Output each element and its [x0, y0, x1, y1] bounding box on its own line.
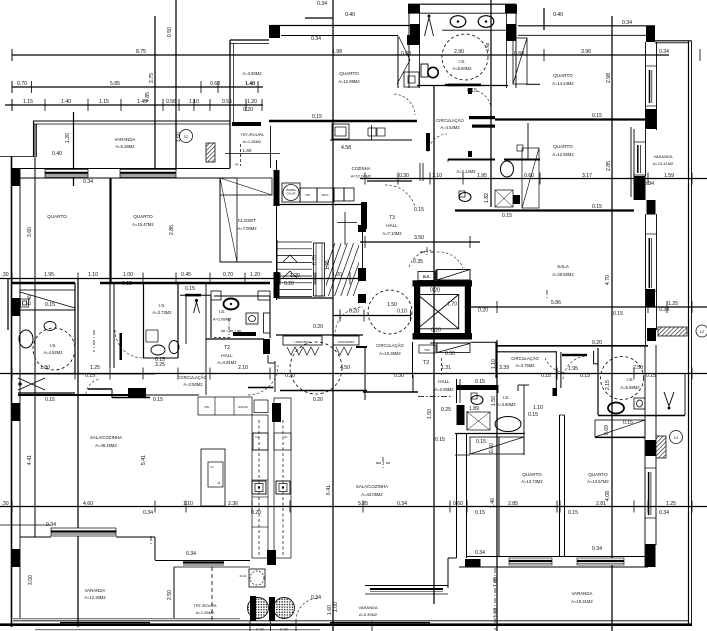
svg-text:0.25: 0.25	[441, 407, 451, 413]
svg-text:A=12.50M2: A=12.50M2	[552, 152, 574, 157]
svg-text:8.75: 8.75	[136, 49, 146, 55]
svg-text:0.20: 0.20	[243, 107, 253, 113]
svg-text:QUARTO: QUARTO	[133, 214, 153, 219]
svg-text:A=19.31M2: A=19.31M2	[571, 599, 593, 604]
svg-text:0.34: 0.34	[659, 49, 669, 55]
svg-text:0.30: 0.30	[394, 373, 404, 379]
svg-text:4.58: 4.58	[341, 145, 351, 151]
svg-text:3.17: 3.17	[582, 173, 592, 179]
svg-text:12: 12	[674, 435, 679, 440]
svg-text:0.60: 0.60	[524, 173, 534, 179]
svg-text:0.34: 0.34	[397, 501, 407, 507]
svg-text:2.50: 2.50	[633, 365, 643, 371]
svg-text:A=7.00M2: A=7.00M2	[237, 226, 257, 231]
svg-text:2.50: 2.50	[167, 590, 173, 600]
svg-text:4.70: 4.70	[605, 275, 611, 285]
svg-text:A=1.35M2: A=1.35M2	[196, 610, 215, 615]
svg-text:1.80: 1.80	[40, 365, 50, 371]
svg-text:3.60: 3.60	[27, 227, 33, 237]
svg-text:5.41: 5.41	[141, 455, 147, 465]
svg-text:I.S.: I.S.	[459, 59, 466, 64]
svg-text:0.20: 0.20	[313, 324, 323, 330]
svg-text:1.95: 1.95	[477, 173, 487, 179]
svg-text:0.15: 0.15	[580, 373, 590, 379]
svg-text:0.45: 0.45	[181, 272, 191, 278]
svg-text:0.15: 0.15	[646, 373, 656, 379]
svg-text:SALA/COZINHA: SALA/COZINHA	[356, 484, 388, 489]
svg-text:A=13.73M2: A=13.73M2	[521, 479, 543, 484]
svg-text:.30: .30	[1, 272, 8, 278]
svg-text:2.85: 2.85	[508, 501, 518, 507]
svg-text:CIRCULAÇÃO: CIRCULAÇÃO	[511, 356, 539, 361]
svg-text:1.35: 1.35	[325, 260, 331, 270]
svg-text:A=3.91M2: A=3.91M2	[217, 360, 237, 365]
svg-text:QUARTO: QUARTO	[522, 472, 542, 477]
svg-text:QUARTO: QUARTO	[553, 144, 573, 149]
svg-text:1.10: 1.10	[88, 272, 98, 278]
svg-text:T3: T3	[389, 215, 395, 221]
svg-text:UMIDORES: UMIDORES	[294, 340, 310, 344]
svg-text:A=43.05M2: A=43.05M2	[361, 492, 383, 497]
svg-text:0.34: 0.34	[659, 307, 669, 313]
svg-text:2.75: 2.75	[149, 73, 155, 83]
svg-text:1.00: 1.00	[333, 602, 339, 612]
svg-text:A=3.50M2: A=3.50M2	[183, 382, 203, 387]
svg-text:ARCA: ARCA	[321, 193, 328, 197]
svg-text:0.60: 0.60	[401, 51, 411, 57]
svg-text:0.34: 0.34	[311, 595, 321, 601]
svg-text:1.15: 1.15	[99, 99, 109, 105]
svg-text:0.70: 0.70	[223, 272, 233, 278]
svg-text:I.S.: I.S.	[50, 343, 57, 348]
svg-text:0.20: 0.20	[592, 340, 602, 346]
svg-text:BOMBA: BOMBA	[286, 188, 296, 192]
svg-text:1.20: 1.20	[290, 273, 300, 279]
svg-text:1.98: 1.98	[332, 49, 342, 55]
svg-text:0.20: 0.20	[430, 288, 440, 294]
svg-text:SALA: SALA	[557, 264, 570, 269]
svg-text:1.60: 1.60	[243, 148, 252, 153]
svg-text:0.35: 0.35	[413, 259, 423, 265]
svg-text:0.15: 0.15	[414, 207, 424, 213]
svg-text:0.20: 0.20	[280, 628, 287, 631]
svg-text:1.10: 1.10	[189, 99, 199, 105]
svg-text:I.S.: I.S.	[627, 377, 634, 382]
svg-text:I.S.: I.S.	[159, 303, 166, 308]
svg-text:1.50: 1.50	[387, 302, 397, 308]
svg-text:FU: FU	[255, 436, 259, 439]
svg-text:QUARTO: QUARTO	[588, 472, 608, 477]
svg-text:0.34: 0.34	[592, 546, 602, 552]
svg-text:A=3.60M2: A=3.60M2	[242, 71, 262, 76]
svg-text:0.40: 0.40	[553, 12, 563, 18]
svg-text:0.55: 0.55	[222, 99, 232, 105]
svg-text:0.34: 0.34	[622, 20, 632, 26]
svg-text:MF: MF	[235, 163, 239, 167]
svg-text:0.20: 0.20	[285, 373, 295, 379]
svg-text:6.41: 6.41	[326, 485, 332, 495]
svg-text:A=3.12M2: A=3.12M2	[456, 169, 476, 174]
svg-text:0.34: 0.34	[475, 550, 485, 556]
svg-text:MAQ-PR: MAQ-PR	[238, 406, 248, 409]
svg-text:3.96: 3.96	[581, 49, 591, 55]
svg-text:SALA/COZINHA: SALA/COZINHA	[90, 435, 122, 440]
svg-text:TRT./ROUPA: TRT./ROUPA	[240, 132, 264, 137]
svg-text:A=3.75M2: A=3.75M2	[515, 363, 535, 368]
svg-text:HALL: HALL	[438, 379, 450, 384]
svg-text:0.15: 0.15	[541, 373, 551, 379]
svg-text:0.15: 0.15	[467, 88, 477, 94]
svg-text:HALL: HALL	[386, 223, 398, 228]
svg-text:0.15: 0.15	[85, 373, 95, 379]
svg-text:0.34: 0.34	[311, 36, 321, 42]
svg-text:CIRCULAÇÃO: CIRCULAÇÃO	[376, 343, 404, 348]
svg-text:0.70: 0.70	[17, 81, 27, 87]
svg-text:ELE.: ELE.	[423, 275, 430, 279]
svg-text:A=10.35M2: A=10.35M2	[379, 351, 401, 356]
svg-text:0.15: 0.15	[592, 113, 602, 119]
svg-text:0.15: 0.15	[592, 204, 602, 210]
svg-text:1.25: 1.25	[668, 301, 678, 307]
svg-text:1.70: 1.70	[447, 302, 457, 308]
svg-text:CONTADORES: CONTADORES	[338, 341, 355, 344]
svg-text:2.10: 2.10	[238, 365, 248, 371]
svg-text:0.56: 0.56	[166, 99, 176, 105]
svg-text:1.25: 1.25	[666, 501, 676, 507]
svg-text:2.98: 2.98	[606, 73, 612, 83]
svg-text:1.10: 1.10	[533, 405, 543, 411]
svg-text:4.85: 4.85	[145, 92, 151, 102]
svg-text:0.15: 0.15	[502, 213, 512, 219]
svg-text:0.20: 0.20	[349, 309, 359, 315]
svg-text:A=2.05M2: A=2.05M2	[434, 387, 454, 392]
svg-text:0.15: 0.15	[153, 397, 163, 403]
svg-text:0.60: 0.60	[453, 501, 463, 507]
svg-text:1.10: 1.10	[491, 359, 497, 369]
svg-text:A=48.15M2: A=48.15M2	[95, 443, 117, 448]
svg-text:0.34: 0.34	[46, 522, 56, 528]
svg-text:0.40: 0.40	[52, 151, 62, 157]
svg-text:0.15: 0.15	[475, 510, 485, 516]
svg-text:4.60: 4.60	[83, 501, 93, 507]
svg-text:0.15: 0.15	[312, 114, 322, 120]
svg-text:2.15: 2.15	[605, 380, 611, 390]
svg-text:0.15: 0.15	[623, 420, 633, 426]
svg-text:T2: T2	[224, 345, 230, 351]
svg-text:TRC: TRC	[424, 348, 430, 352]
svg-text:VARANDA: VARANDA	[653, 154, 672, 159]
svg-text:I.S.: I.S.	[219, 309, 226, 314]
svg-text:0.40: 0.40	[345, 12, 355, 18]
svg-text:QUARTO: QUARTO	[47, 214, 67, 219]
svg-text:1.40: 1.40	[61, 99, 71, 105]
svg-text:1.25: 1.25	[90, 365, 100, 371]
svg-text:A=4.54M2: A=4.54M2	[440, 125, 460, 130]
svg-text:0.34: 0.34	[83, 179, 93, 185]
svg-text:0.15: 0.15	[475, 379, 485, 385]
svg-text:3.50: 3.50	[414, 235, 424, 241]
svg-text:0.34: 0.34	[659, 510, 669, 516]
svg-text:A=3.73M2: A=3.73M2	[152, 310, 172, 315]
svg-text:0.34: 0.34	[317, 1, 327, 7]
svg-text:1.63: 1.63	[493, 608, 499, 618]
svg-text:0.20: 0.20	[256, 628, 263, 631]
svg-text:1.40: 1.40	[245, 81, 255, 87]
svg-text:CIRCULAÇÃO: CIRCULAÇÃO	[179, 375, 207, 380]
svg-text:A=12.30M2: A=12.30M2	[84, 595, 106, 600]
svg-text:3.00: 3.00	[28, 575, 34, 585]
svg-text:5.85: 5.85	[110, 81, 120, 87]
svg-text:1.60: 1.60	[176, 132, 182, 142]
svg-text:0.69: 0.69	[604, 425, 610, 435]
svg-text:1.20: 1.20	[247, 99, 257, 105]
svg-text:0.15: 0.15	[476, 439, 486, 445]
svg-text:0.10: 0.10	[397, 309, 407, 315]
svg-text:VARANDA: VARANDA	[358, 605, 377, 610]
svg-text:5.86: 5.86	[551, 300, 561, 306]
svg-text:VARANDA: VARANDA	[115, 137, 136, 142]
svg-text:0.30: 0.30	[399, 173, 409, 179]
svg-text:2.90: 2.90	[454, 49, 464, 55]
svg-text:I.S.: I.S.	[503, 395, 510, 400]
svg-text:0.60: 0.60	[489, 443, 495, 453]
svg-text:A=5.88M2: A=5.88M2	[620, 385, 640, 390]
svg-text:12: 12	[184, 134, 189, 139]
svg-text:PRL: PRL	[204, 405, 210, 409]
svg-text:A=4.92M2: A=4.92M2	[43, 350, 63, 355]
svg-text:2.86: 2.86	[169, 225, 175, 235]
svg-text:FU: FU	[210, 466, 214, 469]
svg-text:0.46: 0.46	[27, 295, 33, 305]
svg-text:4.41: 4.41	[27, 455, 33, 465]
svg-text:1.59: 1.59	[664, 173, 674, 179]
svg-text:HALL: HALL	[221, 353, 233, 358]
svg-text:1.31: 1.31	[441, 365, 451, 371]
svg-text:TRT./ROUPA: TRT./ROUPA	[193, 603, 217, 608]
svg-text:0.15: 0.15	[45, 302, 55, 308]
svg-text:DI: DI	[218, 482, 221, 485]
svg-text:0.20: 0.20	[431, 328, 441, 334]
svg-text:QUARTO: QUARTO	[339, 71, 359, 76]
svg-text:1.20: 1.20	[332, 272, 342, 278]
svg-text:4.08: 4.08	[605, 491, 611, 501]
svg-text:PRL: PRL	[305, 193, 311, 197]
svg-text:0.34: 0.34	[186, 551, 196, 557]
svg-text:A=7.10M2: A=7.10M2	[382, 231, 402, 236]
svg-text:1.20: 1.20	[65, 133, 71, 143]
svg-text:1.46: 1.46	[490, 498, 496, 508]
svg-text:VARANDA: VARANDA	[572, 591, 593, 596]
svg-text:A=1.26M2: A=1.26M2	[243, 139, 262, 144]
svg-text:M.LR: M.LR	[240, 574, 247, 578]
svg-text:0.60: 0.60	[514, 51, 524, 57]
svg-text:.30: .30	[1, 501, 8, 507]
svg-text:0.15: 0.15	[528, 412, 538, 418]
svg-text:0.20: 0.20	[251, 510, 261, 516]
svg-text:0.20: 0.20	[313, 397, 323, 403]
svg-text:0.34: 0.34	[143, 510, 153, 516]
svg-text:T2: T2	[423, 360, 429, 366]
svg-text:A=12.98M2: A=12.98M2	[338, 79, 360, 84]
svg-text:0.15: 0.15	[185, 286, 195, 292]
svg-text:1.00: 1.00	[123, 272, 133, 278]
svg-text:5.85: 5.85	[358, 501, 368, 507]
svg-text:CIRCULAÇÃO: CIRCULAÇÃO	[436, 118, 464, 123]
svg-text:CALOR: CALOR	[287, 192, 296, 196]
svg-text:COZINHA: COZINHA	[352, 166, 371, 171]
svg-text:A=12.00M2: A=12.00M2	[351, 174, 372, 179]
svg-text:1.95: 1.95	[44, 272, 54, 278]
svg-text:1.50: 1.50	[427, 409, 433, 419]
svg-text:1.95: 1.95	[568, 366, 578, 372]
svg-text:1.20: 1.20	[250, 272, 260, 278]
svg-text:0.20: 0.20	[478, 308, 488, 314]
svg-text:A=6.26M2: A=6.26M2	[115, 144, 135, 149]
svg-text:3.39: 3.39	[499, 365, 509, 371]
svg-text:A=3.80M2: A=3.80M2	[496, 402, 516, 407]
svg-text:CLOSET: CLOSET	[238, 218, 257, 223]
svg-text:0.15: 0.15	[122, 281, 132, 287]
svg-text:A=5.39M2: A=5.39M2	[359, 612, 378, 617]
svg-text:2.85: 2.85	[606, 161, 612, 171]
svg-text:A=6.50M2: A=6.50M2	[452, 66, 472, 71]
svg-text:0.34: 0.34	[644, 181, 654, 187]
svg-text:1.10: 1.10	[432, 173, 442, 179]
svg-text:A=2.08M2: A=2.08M2	[213, 317, 232, 322]
svg-text:A=29.50M2: A=29.50M2	[552, 272, 574, 277]
svg-text:0.15: 0.15	[568, 510, 578, 516]
svg-text:0.50: 0.50	[167, 27, 173, 37]
svg-text:1.10: 1.10	[183, 501, 193, 507]
svg-text:12: 12	[700, 329, 705, 334]
svg-text:A=13.57M2: A=13.57M2	[587, 479, 609, 484]
svg-text:VARANDA: VARANDA	[85, 588, 106, 593]
svg-text:A=13.41M2: A=13.41M2	[653, 161, 674, 166]
svg-text:0.20: 0.20	[284, 281, 294, 287]
svg-text:0.30: 0.30	[445, 351, 455, 357]
svg-text:0.15: 0.15	[155, 357, 165, 363]
svg-text:2.36: 2.36	[228, 501, 238, 507]
svg-text:0.15: 0.15	[435, 437, 445, 443]
svg-text:4.50: 4.50	[340, 365, 350, 371]
svg-text:0.60: 0.60	[210, 81, 220, 87]
svg-text:1.82: 1.82	[484, 193, 490, 203]
svg-text:A=14.24M2: A=14.24M2	[552, 81, 574, 86]
svg-text:1.89: 1.89	[469, 406, 479, 412]
svg-text:0.15: 0.15	[45, 397, 55, 403]
svg-text:1.09: 1.09	[493, 577, 499, 587]
svg-text:A=15.47M2: A=15.47M2	[132, 222, 154, 227]
svg-text:1.15: 1.15	[23, 99, 33, 105]
svg-text:0.15: 0.15	[613, 311, 623, 317]
svg-text:0.70: 0.70	[312, 255, 318, 265]
svg-text:QUARTO: QUARTO	[553, 73, 573, 78]
